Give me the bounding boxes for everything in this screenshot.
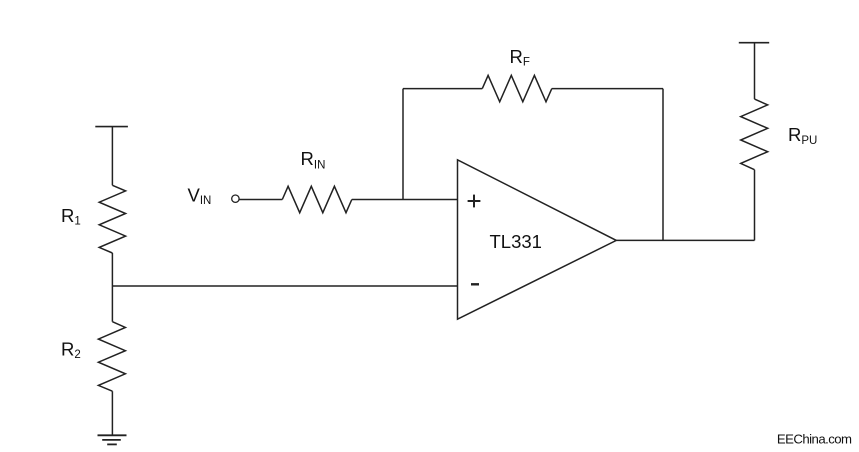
wire supply bar to R1 <box>111 127 113 186</box>
wire R1 to R2 (through node) <box>111 253 113 322</box>
supply bar (top of R1 branch) <box>95 126 128 128</box>
svg-text:EEChina.com: EEChina.com <box>777 431 852 446</box>
wire VIN terminal to RIN <box>239 199 282 201</box>
svg-text:TL331: TL331 <box>490 231 542 252</box>
resistor R1 <box>99 185 125 253</box>
VIN input terminal <box>232 195 239 202</box>
supply bar (top of RPU) <box>739 42 769 44</box>
wire feedback left vertical (node on + input) <box>402 89 404 200</box>
output wire <box>616 239 754 241</box>
svg-text:RPU: RPU <box>788 124 817 147</box>
wire feedback top-left to RF <box>403 88 482 90</box>
resistor RIN <box>282 186 352 212</box>
resistor RPU <box>741 99 768 170</box>
wire RPU to supply bar <box>754 43 756 99</box>
ground <box>98 435 127 444</box>
op-amp plus input marker <box>468 195 481 208</box>
svg-text:R2: R2 <box>61 339 81 362</box>
svg-text:R1: R1 <box>61 205 81 228</box>
svg-text:RF: RF <box>510 46 530 69</box>
op-amp U1 TL331 triangle <box>458 160 617 319</box>
resistor R2 <box>98 322 125 392</box>
wire RIN to non-inverting input <box>352 199 458 201</box>
node: junction to inverting input wire <box>112 285 457 287</box>
wire output to RPU <box>754 170 756 241</box>
op-amp minus input marker <box>471 283 479 285</box>
wire RF to feedback right vertical <box>552 88 663 90</box>
svg-text:RIN: RIN <box>301 148 326 172</box>
wire feedback right vertical to output <box>662 89 664 241</box>
wire R2 to ground <box>111 391 113 435</box>
svg-text:VIN: VIN <box>188 185 212 208</box>
resistor RF <box>482 75 552 101</box>
